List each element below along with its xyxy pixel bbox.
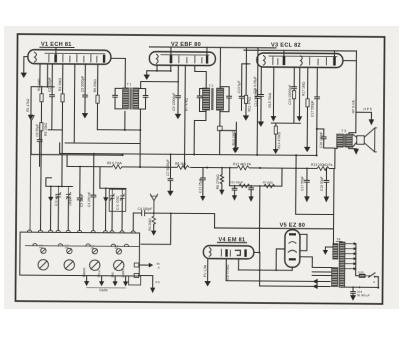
svg-text:C7 5000μF: C7 5000μF xyxy=(166,159,170,175)
resistor R11 to ground xyxy=(244,48,252,116)
svg-text:R7 2MΩ: R7 2MΩ xyxy=(263,181,273,185)
wire eye target return xyxy=(239,259,293,271)
HT bus rail xyxy=(60,152,318,156)
svg-text:0,2A: 0,2A xyxy=(358,270,364,274)
switch xyxy=(369,273,380,289)
label P.U xyxy=(156,280,160,284)
padder box C.V. OSC xyxy=(109,189,126,211)
wire AVC down to magic eye anode xyxy=(254,186,261,253)
wire HT 9mA down right side xyxy=(351,51,356,133)
svg-text:R1 47kΩ: R1 47kΩ xyxy=(26,98,30,111)
svg-text:Cadre: Cadre xyxy=(99,288,108,292)
wire V1 top feed xyxy=(55,47,57,54)
wire AVC to rail xyxy=(281,168,283,186)
wire V1 pin osc grid xyxy=(51,64,53,95)
svg-text:C9 10000pF: C9 10000pF xyxy=(172,93,176,111)
capacitor on AVC tap 1 to ground xyxy=(232,185,237,201)
wire C10 node to V3 xyxy=(242,63,250,65)
svg-text:R2 1MΩ: R2 1MΩ xyxy=(37,78,41,91)
wire heater line 1 xyxy=(226,278,330,284)
capacitor C2 100pF xyxy=(50,95,55,97)
wire top rail under V2 label xyxy=(149,46,275,49)
svg-text:C.V. acc: C.V. acc xyxy=(54,193,58,206)
tube V1 ECH 81 label xyxy=(40,42,74,48)
wire T1 secondary to V2 grid xyxy=(141,81,179,88)
capacitor C4 150pF antenna coupling xyxy=(133,207,154,231)
capacitor C17 xyxy=(300,167,310,202)
svg-text:R11 47kΩ: R11 47kΩ xyxy=(247,96,251,111)
ground under C7 xyxy=(167,191,173,196)
svg-text:C2 100pF: C2 100pF xyxy=(48,77,52,92)
svg-text:Osc: Osc xyxy=(111,271,115,277)
T1 core xyxy=(129,87,132,109)
wire V2 grid top feed xyxy=(170,47,172,55)
transformer T1 primary coil xyxy=(122,88,128,109)
svg-text:R8 1kΩ: R8 1kΩ xyxy=(175,162,187,166)
tube V3 ECL 82 label xyxy=(271,43,301,49)
svg-text:T 3: T 3 xyxy=(341,129,346,133)
capacitor C5 5000pF xyxy=(84,64,86,95)
ground under R17 xyxy=(304,147,310,152)
ground under V2 cathode xyxy=(144,75,150,80)
T3 core xyxy=(344,134,346,147)
svg-text:R9 0,7mA: R9 0,7mA xyxy=(107,161,122,165)
capacitor C13 xyxy=(198,167,205,201)
wire V1 cathode to ground xyxy=(24,57,28,73)
svg-text:R13 100kΩ Fa: R13 100kΩ Fa xyxy=(311,163,333,167)
capacitor C19 to ground xyxy=(350,287,370,301)
trimmer C.V. acc xyxy=(54,186,61,230)
svg-text:R16 470kΩ: R16 470kΩ xyxy=(226,264,230,281)
resistor R18 series AVC xyxy=(230,180,250,187)
tube V5 EZ 80 label xyxy=(280,223,306,229)
capacitor C10 coupling xyxy=(237,64,244,111)
svg-text:H P 5: H P 5 xyxy=(363,107,371,111)
tube V1 ECH 81 envelope xyxy=(28,50,111,65)
wire volume control to AVC staircase xyxy=(295,155,334,214)
gang output terminal box xyxy=(129,263,141,285)
wire V5 cathode right xyxy=(300,257,313,268)
svg-text:P.U: P.U xyxy=(156,280,160,284)
wire detector to AVC line xyxy=(220,122,237,155)
T4 heater output arrows xyxy=(345,242,357,270)
svg-text:R15 70kΩ: R15 70kΩ xyxy=(268,92,272,107)
schematic border frame xyxy=(15,34,384,304)
wire osc coupling down xyxy=(65,142,140,145)
transformer T2 secondary coil xyxy=(216,88,223,110)
resistor R9 series xyxy=(107,161,123,169)
resistor R3 (box) xyxy=(61,94,64,102)
tube V2 EBF 80 label xyxy=(171,42,201,48)
transformer T1 secondary coil xyxy=(133,88,139,109)
resistor R4 2M xyxy=(148,212,156,230)
wire T2 primary bottom down xyxy=(194,111,206,154)
resistor R6 (box) xyxy=(96,95,99,103)
wire T4 bottom rail xyxy=(342,286,379,288)
wire C2 down xyxy=(48,97,62,130)
transformer T4 core xyxy=(339,242,345,287)
wire T2 secondary bottom to detector cap xyxy=(219,112,221,126)
wire T4 primary top feed xyxy=(214,168,334,244)
wire V1 anode to T1 xyxy=(111,58,126,87)
wire R6 to node line xyxy=(96,103,98,129)
wire HP node xyxy=(356,111,363,113)
svg-text:C4 250 pF: C4 250 pF xyxy=(87,192,91,207)
svg-text:PV 1,5A: PV 1,5A xyxy=(203,264,207,277)
svg-text:R7 47kΩ: R7 47kΩ xyxy=(184,97,188,110)
capacitor C3 50pF xyxy=(77,166,84,231)
T2 tuning capacitor left xyxy=(197,88,206,111)
gang terminal wire HP xyxy=(97,269,104,286)
wire T1 right coil bottom down xyxy=(139,109,141,130)
svg-text:C17 500pF: C17 500pF xyxy=(310,101,314,117)
wire heater line 2 xyxy=(260,270,331,289)
tube V4 EM 81 label xyxy=(217,237,246,243)
transformer T3 primary coil xyxy=(337,134,344,147)
gang terminal wire Osc xyxy=(111,271,118,286)
arrow HP feed xyxy=(369,112,375,125)
svg-text:V3 ECL 82: V3 ECL 82 xyxy=(271,43,301,49)
label HP 5 xyxy=(363,107,371,115)
ground under T3 xyxy=(353,149,359,155)
transformer T4 secondary winding xyxy=(332,268,338,287)
trimmer screw 1 xyxy=(39,245,46,254)
ground under V4 xyxy=(204,281,210,286)
transformer T2 primary coil xyxy=(202,88,209,110)
svg-text:C13 25μF: C13 25μF xyxy=(199,178,203,193)
svg-text:Cadre: Cadre xyxy=(121,268,125,277)
trimmer screw 2 xyxy=(65,245,72,254)
node line under V1 left pins xyxy=(31,86,54,88)
svg-text:C8 50μF: C8 50μF xyxy=(35,124,39,137)
wire R3 down to osc network xyxy=(61,102,64,186)
label secteur xyxy=(373,280,375,284)
resistor R12 series xyxy=(233,162,252,170)
arrow under R4 xyxy=(151,224,157,236)
svg-text:R4 2MΩ: R4 2MΩ xyxy=(148,218,152,231)
wire V5 plate top right xyxy=(300,234,307,250)
trimmer screw 3 xyxy=(90,245,97,254)
resistor R19 series AVC xyxy=(263,181,275,188)
svg-text:R6 270kΩ: R6 270kΩ xyxy=(216,174,220,189)
svg-text:Masse: Masse xyxy=(82,267,86,277)
wire corner decoupling rail xyxy=(66,155,68,166)
ground under C9 xyxy=(177,98,179,114)
wire T4 HT secondary right xyxy=(356,244,360,276)
gang section rotor 1 xyxy=(38,260,48,270)
svg-text:R5 10kΩ: R5 10kΩ xyxy=(44,122,48,135)
T4 secondary taps xyxy=(312,272,332,276)
svg-text:C.V. OSC: C.V. OSC xyxy=(115,195,119,210)
resistor R14 to HT rail xyxy=(273,123,281,154)
svg-text:C10 5μF: C10 5μF xyxy=(237,81,241,94)
svg-text:R10 1MΩ: R10 1MΩ xyxy=(232,131,236,146)
wire R2 to R5 xyxy=(40,102,42,123)
wire V2 diode pin to T2 xyxy=(195,65,207,88)
wire V1 pin g2 xyxy=(41,87,43,94)
capacitor C14 xyxy=(254,67,264,122)
capacitor C11 grid xyxy=(253,48,261,155)
resistor R17 screen xyxy=(301,67,309,147)
wire AVC staircase to magic eye xyxy=(154,212,215,228)
wire V3 triode cathode xyxy=(297,67,303,122)
wire AVC line corner xyxy=(229,167,231,186)
wire feed osc rail xyxy=(46,178,52,187)
resistor R13 series xyxy=(311,163,333,171)
gang second row bushings xyxy=(33,243,129,246)
wire top rail under V3 label xyxy=(244,49,356,52)
svg-text:R14 470kΩ: R14 470kΩ xyxy=(277,131,281,148)
wire T1 secondary down xyxy=(124,111,126,129)
oscillator section rail xyxy=(46,185,73,187)
wire antenna branch down to gang xyxy=(141,213,171,244)
trimmer 180pF xyxy=(66,186,72,230)
arrow output B+ xyxy=(139,262,161,270)
resistor R20 wire xyxy=(226,259,230,282)
resistor R2 (box) xyxy=(40,94,43,102)
gang top pin bushings xyxy=(27,230,135,233)
wire node to HT resistor rail xyxy=(139,130,141,167)
ground under C5 xyxy=(84,97,86,113)
wire V4 cathode down to ground xyxy=(203,259,207,282)
wire V1 pin g1 xyxy=(30,87,32,115)
svg-text:R6 20kΩ: R6 20kΩ xyxy=(93,79,97,92)
svg-text:C15 10000pF: C15 10000pF xyxy=(288,85,292,105)
speaker HP cone xyxy=(364,128,377,152)
capacitor C18 xyxy=(320,168,330,203)
wire with arrow to gang pin 1 xyxy=(48,186,54,230)
wire R5 down to gang xyxy=(40,131,43,230)
T1 tuning capacitor right xyxy=(139,89,148,110)
gang terminal wire Masse xyxy=(82,267,89,286)
feed arrow onto HT rail x235 xyxy=(232,133,238,153)
node line under T1 xyxy=(97,129,141,131)
wire AGC corner left xyxy=(30,123,32,155)
antenna xyxy=(150,194,158,213)
wire V2 cathode to ground xyxy=(147,65,172,75)
wire V2 pin to HT rail xyxy=(184,65,187,167)
gang section rotor 2 xyxy=(64,260,74,270)
svg-text:C12 10kpF: C12 10kpF xyxy=(230,180,244,184)
svg-text:C17 50pF: C17 50pF xyxy=(300,176,304,191)
svg-text:T4: T4 xyxy=(336,238,340,242)
resistor R6 to ground xyxy=(216,167,225,195)
wire V3 grid top feeds xyxy=(284,50,335,56)
capacitor on AVC tap to ground xyxy=(248,186,253,202)
fuse xyxy=(358,270,369,277)
svg-text:A: A xyxy=(158,265,160,269)
gang section rotor 3 xyxy=(90,260,100,270)
capacitor C12 detector xyxy=(218,126,223,131)
svg-text:T 1: T 1 xyxy=(127,82,132,86)
cathode bus line xyxy=(271,122,300,124)
trimmer screw 4 xyxy=(114,245,121,254)
svg-text:R12 4kΩ FA: R12 4kΩ FA xyxy=(233,162,252,166)
tube V3 ECL 82 envelope xyxy=(257,53,343,68)
decoupling rail xyxy=(67,165,334,169)
wire T2 top to rail xyxy=(219,47,221,86)
ground arrow on AGC left xyxy=(29,116,35,123)
trimmer osc 1 xyxy=(110,188,114,231)
gang section rotor 4 xyxy=(114,260,124,270)
wire V3 anode to output xyxy=(343,60,356,62)
tube V2 EBF 80 envelope xyxy=(149,52,215,66)
AVC network line xyxy=(230,185,282,187)
tuning gang box xyxy=(20,232,140,276)
transformer T4 primary winding xyxy=(333,244,338,260)
svg-text:T 2: T 2 xyxy=(209,84,214,88)
ground under R11 xyxy=(243,115,249,120)
tube V5 EZ 80 envelope xyxy=(285,230,300,268)
resistor R8 series on decoupling rail xyxy=(175,162,189,170)
wire T3 secondary return to rail xyxy=(335,147,337,169)
capacitor C17 grid xyxy=(310,67,320,155)
wire V1 pin 6 xyxy=(97,64,99,95)
ground under V1 cathode xyxy=(21,73,27,78)
capacitor C9 10000pF xyxy=(177,65,179,95)
wire V5 heater bottom xyxy=(291,267,293,270)
svg-text:V5 EZ 80: V5 EZ 80 xyxy=(280,223,306,229)
wire V5 HT feed xyxy=(312,266,331,268)
resistor R15 cathode xyxy=(268,67,277,122)
ground under C14 xyxy=(258,121,264,126)
wire with arrow to gang pin osc xyxy=(103,188,109,231)
capacitor C7 5000pF xyxy=(166,153,173,190)
gang terminal wire Cadre xyxy=(121,268,128,286)
wire T3 primary top xyxy=(349,133,356,135)
svg-text:Ph.U: Ph.U xyxy=(97,269,101,277)
tube V4 EM 81 envelope xyxy=(203,246,254,259)
wire V1 pin drops xyxy=(40,64,48,87)
transformer T3 secondary coil xyxy=(346,134,353,147)
svg-text:HT 9 mA: HT 9 mA xyxy=(352,99,356,113)
wire T3 bottom to ground xyxy=(349,147,356,149)
svg-text:C14 5000pF: C14 5000pF xyxy=(254,88,258,106)
wire V2 screen top feed xyxy=(206,47,208,55)
resistor R5 (box) xyxy=(40,123,43,131)
wire V1 pin 4 to HT rail xyxy=(73,64,76,143)
wire HT rail corner up xyxy=(59,143,61,153)
trimmer osc 2 xyxy=(120,188,124,231)
arrow P.U down xyxy=(139,276,156,294)
svg-text:50 000 μF: 50 000 μF xyxy=(357,293,370,297)
capacitor C16 180pF xyxy=(316,128,335,148)
svg-text:C18 50pF: C18 50pF xyxy=(320,176,324,191)
wire V1 pin 3 xyxy=(62,64,64,94)
ground arrow T4 primary xyxy=(323,247,333,255)
padder rail xyxy=(100,187,126,189)
transformer T4 label xyxy=(336,238,343,242)
wire V4 anode loop xyxy=(258,252,260,271)
capacitor C6 250pF xyxy=(87,153,96,231)
label Cadre xyxy=(87,288,126,293)
svg-text:C5 5000pF: C5 5000pF xyxy=(81,76,85,92)
wire feed padder xyxy=(99,167,101,188)
capacitor C8 AGC xyxy=(35,123,42,167)
T2 core xyxy=(211,88,214,110)
T1 tuning capacitor left xyxy=(113,88,122,109)
capacitor C15 and resistor R16 xyxy=(288,67,297,123)
svg-text:R3 30kΩ: R3 30kΩ xyxy=(58,77,62,90)
wire V5 filament left xyxy=(276,249,285,270)
svg-text:R17 1MΩ: R17 1MΩ xyxy=(301,81,305,96)
speaker HP driver xyxy=(352,134,364,147)
arrow on AVC wire xyxy=(28,115,34,120)
T2 tuning capacitor right xyxy=(220,87,232,112)
svg-text:C16 180pF: C16 180pF xyxy=(319,132,323,148)
AGC rail xyxy=(31,153,124,156)
resistor R10 detector load xyxy=(232,122,239,152)
